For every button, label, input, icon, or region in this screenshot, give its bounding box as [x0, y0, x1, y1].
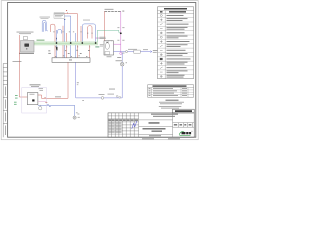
- wire blue from label box: [65, 16, 71, 58]
- junction box blue outline: [82, 24, 95, 44]
- red loop inside box: [88, 26, 92, 39]
- wire red stub: [80, 26, 82, 42]
- junction dots on band: [56, 42, 58, 44]
- bonding terminal inner box: [27, 93, 38, 105]
- project name: [149, 122, 160, 123]
- wall dashed line: [104, 10, 121, 12]
- legend table: [158, 7, 194, 79]
- bell button: [116, 95, 118, 97]
- red drop to meter: [104, 11, 106, 41]
- designation text: [175, 110, 192, 112]
- meter box: [104, 40, 114, 55]
- RCD circle: [125, 51, 127, 53]
- wire red riser below box: [89, 42, 91, 58]
- breaker block dark: [56, 47, 58, 50]
- circuit number labels: [48, 50, 90, 54]
- doorbell circuit: [76, 53, 123, 98]
- outgoing line with RCD: [114, 51, 153, 53]
- bell: [120, 62, 124, 66]
- note paragraph: [159, 100, 184, 109]
- node junction: [120, 32, 122, 34]
- blue loop U small: [58, 29, 62, 33]
- panel caption below: [19, 53, 34, 54]
- PE green band: [34, 42, 98, 45]
- legend texts: [167, 15, 191, 77]
- node blue junction: [64, 19, 65, 20]
- lamp symbol: [73, 116, 76, 119]
- -PE label: [95, 46, 99, 47]
- wire blue riser N1: [56, 30, 58, 58]
- sheet register table: [148, 85, 194, 97]
- wire red riser L1: [50, 24, 55, 58]
- under frame captions: [142, 138, 154, 139]
- bus labels above: [55, 55, 87, 57]
- magenta riser: [120, 11, 122, 52]
- title block: [108, 109, 194, 137]
- bathroom bonding box DSUP: [22, 88, 47, 113]
- signature rows: [108, 123, 121, 133]
- lamp on magenta: [120, 52, 122, 54]
- pink tail: [38, 101, 47, 103]
- side caption: [13, 60, 22, 63]
- terminal bus bar: [52, 58, 90, 63]
- object name: [151, 114, 178, 117]
- header row Izm..Data: [108, 120, 138, 121]
- wire red riser: [66, 33, 68, 58]
- breaker ticks below band: [55, 46, 90, 49]
- PE label: [37, 40, 45, 41]
- magenta link meter: [114, 43, 121, 45]
- cable loop blue: [42, 20, 48, 32]
- panel caption above: [17, 31, 34, 34]
- meter window: [24, 36, 28, 39]
- PE teal link: [97, 30, 120, 42]
- signature squiggle: [132, 121, 137, 129]
- utility panel grey box: [21, 41, 35, 53]
- bottom circle: [39, 105, 41, 107]
- wire red from label box: [65, 14, 78, 58]
- intercom circle: [101, 97, 104, 100]
- floor panel label box: [54, 13, 64, 18]
- red feeder down left: [19, 35, 27, 97]
- left margin column: [3, 64, 7, 138]
- cable loop label: [40, 16, 51, 19]
- legend symbols: [160, 14, 163, 77]
- org name: [143, 128, 166, 129]
- PE tails green: [14, 101, 17, 104]
- blue circuit to lamp: [38, 105, 75, 116]
- red entry mark: [66, 10, 67, 11]
- stage cells: [174, 124, 192, 125]
- red circuit to bathroom: [38, 62, 68, 98]
- breaker chevrons: [53, 32, 93, 34]
- wire blue riser: [64, 19, 66, 57]
- wire blue riser: [75, 33, 77, 58]
- RCD box: [134, 50, 141, 53]
- drawing frame: [8, 3, 196, 138]
- wire red riser: [62, 26, 64, 58]
- page edge: [1, 1, 198, 140]
- company logo: [179, 131, 192, 136]
